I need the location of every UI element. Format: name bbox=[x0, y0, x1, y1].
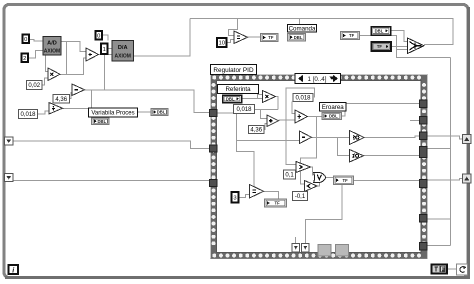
wire top long wire bbox=[190, 19, 453, 45]
bottom tunnel box 1 bbox=[292, 244, 300, 253]
Eroarea label bbox=[320, 103, 347, 112]
svg-text:1 [0..4]: 1 [0..4] bbox=[308, 76, 327, 83]
svg-text:D/A: D/A bbox=[118, 45, 128, 51]
TF control top right bbox=[372, 42, 392, 51]
wire branch to not-equal bbox=[338, 137, 350, 155]
svg-text:DBL: DBL bbox=[226, 96, 235, 101]
wire junction to add top bbox=[261, 109, 268, 118]
wire branch to select f bbox=[397, 49, 408, 51]
wire shift register 1 wire bbox=[13, 141, 210, 149]
wire 0 to D/A top bbox=[102, 35, 108, 40]
select function bbox=[408, 38, 425, 54]
loop condition terminal bbox=[457, 264, 468, 275]
Variabila Proces DBL indicator right bbox=[151, 109, 168, 116]
wire less out to or bbox=[317, 183, 320, 187]
Referinta label bbox=[218, 85, 259, 94]
wire 0,02 to multiply bbox=[42, 78, 48, 85]
svg-text:A/D: A/D bbox=[47, 41, 57, 47]
wire add out to D/A bbox=[99, 54, 113, 56]
svg-text:DBL: DBL bbox=[98, 119, 107, 124]
svg-text:-0,1: -0,1 bbox=[295, 194, 306, 200]
svg-text:Eroarea: Eroarea bbox=[322, 104, 345, 111]
wire shift register 2 wire bbox=[13, 179, 210, 181]
constant 3 bbox=[232, 192, 239, 203]
wire or out to TF bbox=[326, 177, 334, 179]
equal function top bbox=[234, 31, 248, 44]
wire subtract out to comparators bbox=[312, 136, 350, 138]
wire DBL to select t bbox=[391, 31, 408, 42]
TF indicator or output bbox=[334, 176, 354, 185]
wire 4,36 to subtract bbox=[70, 93, 73, 99]
svg-text:TF: TF bbox=[275, 201, 281, 206]
wire branch to Comanda bbox=[299, 19, 301, 25]
tunnel G right bbox=[420, 243, 428, 251]
svg-text:0,018: 0,018 bbox=[20, 112, 36, 118]
wire D/A out up bbox=[134, 19, 191, 57]
wire long right vertical bbox=[450, 58, 452, 246]
svg-text:0: 0 bbox=[24, 37, 27, 43]
wire equal out to TF bbox=[248, 36, 261, 38]
svg-text:TF: TF bbox=[377, 44, 383, 49]
constant 0,1 bbox=[284, 170, 296, 179]
wire 2 to A/D bbox=[28, 51, 43, 59]
Variabila Proces DBL indicator below bbox=[92, 118, 110, 125]
wire branch to equal top bbox=[229, 19, 238, 36]
tunnel A right bbox=[420, 100, 428, 108]
wire 0,018 to junction bbox=[255, 108, 278, 110]
svg-text:1: 1 bbox=[103, 47, 106, 53]
equal function frame bbox=[250, 185, 264, 199]
add function bbox=[86, 48, 99, 61]
iteration terminal i bbox=[9, 265, 19, 275]
svg-text:Regulator PID: Regulator PID bbox=[213, 67, 254, 74]
svg-text:10: 10 bbox=[219, 41, 225, 47]
wire A/D bottom out to multiply bbox=[46, 55, 49, 72]
constant 2 bbox=[22, 54, 29, 63]
Variabila Proces label bbox=[89, 108, 138, 117]
svg-text:2: 2 bbox=[23, 56, 26, 62]
less function bbox=[305, 181, 318, 192]
svg-text:DBL: DBL bbox=[157, 110, 166, 115]
svg-text:0,1: 0,1 bbox=[285, 173, 294, 179]
Comanda DBL indicator bbox=[288, 34, 306, 42]
sequence local gray square 2 bbox=[336, 245, 349, 257]
right shift register 2 bbox=[463, 174, 472, 183]
svg-text:4,36: 4,36 bbox=[55, 97, 67, 103]
constant 0 bbox=[23, 35, 30, 44]
wire TF indicator wire right bbox=[360, 35, 451, 57]
wire tunnel D out bbox=[427, 148, 451, 150]
wire TF wire to tunnel E bbox=[354, 180, 420, 182]
svg-text:Comanda: Comanda bbox=[289, 25, 316, 32]
constant 0 top bbox=[96, 31, 103, 40]
wire TF branch down to bottom tunnel bbox=[306, 185, 343, 244]
constant 0,018 bbox=[19, 110, 38, 119]
greater function bbox=[296, 162, 311, 173]
constant 0,02 bbox=[27, 81, 43, 90]
left shift register 1 bbox=[5, 137, 14, 145]
subtract function frame bbox=[300, 131, 312, 144]
wire junction down to process wire bbox=[104, 55, 106, 90]
tunnel F right bbox=[420, 215, 428, 223]
divide function bbox=[49, 103, 63, 115]
wire branch to subtract bottom bbox=[236, 140, 299, 142]
svg-text:4,36: 4,36 bbox=[250, 128, 262, 134]
svg-text:TF: TF bbox=[343, 178, 349, 183]
tunnel T2 left bbox=[210, 145, 218, 152]
wire 0,1 to greater bbox=[293, 169, 295, 171]
svg-text:Referinta: Referinta bbox=[225, 86, 251, 93]
wire not-equal out to tunnel D bbox=[364, 155, 420, 157]
wire 10 to equal bbox=[227, 40, 235, 43]
subtract function bbox=[72, 84, 85, 96]
svg-text:DBL: DBL bbox=[375, 28, 384, 33]
tunnel E right bbox=[420, 180, 428, 188]
wire equal out to TF indicator bbox=[264, 191, 279, 199]
sequence local gray square 1 bbox=[318, 245, 331, 257]
wire 3 to equal bbox=[239, 194, 250, 197]
greater-equal-zero function bbox=[350, 131, 365, 145]
Comanda label bbox=[288, 25, 317, 33]
wire subtract out long wire to frame tunnel bbox=[85, 90, 210, 113]
add function frame bbox=[267, 115, 279, 127]
constant 0,018 frame left bbox=[234, 105, 255, 114]
bottom tunnel box 2 bbox=[302, 244, 310, 253]
svg-text:0,02: 0,02 bbox=[28, 83, 40, 89]
svg-text:DBL: DBL bbox=[294, 35, 303, 40]
constant 10 bbox=[217, 38, 227, 47]
Referinta DBL control bbox=[223, 95, 242, 103]
tunnel T3 left bbox=[210, 180, 218, 187]
TF indicator equal output bbox=[265, 199, 287, 207]
wire A/D out to add bbox=[61, 42, 86, 52]
wire tunnel C to right shift register bbox=[427, 136, 463, 139]
TF indicator top 1 bbox=[261, 34, 279, 42]
sequence selector label 1 [0..4] bbox=[295, 74, 341, 84]
wire TF control to select s bbox=[391, 45, 408, 47]
constant 4,36 frame bbox=[249, 126, 265, 134]
svg-text:3: 3 bbox=[233, 195, 236, 201]
not-equal-zero function bbox=[350, 150, 364, 163]
wire divide out to Eroarea bbox=[308, 116, 323, 118]
wire label to DBL right bbox=[138, 111, 152, 113]
svg-text:TF: TF bbox=[268, 35, 274, 40]
wire Referinta branch to multiply top bbox=[258, 95, 263, 99]
constant 0,018 frame top bbox=[293, 94, 313, 102]
wire 4,36 to add bottom bbox=[264, 123, 267, 129]
constant -0,1 bbox=[293, 192, 308, 201]
wire tunnel F in bbox=[427, 218, 451, 220]
multiply function bbox=[48, 68, 60, 81]
right shift register 1 bbox=[463, 135, 472, 144]
wire Eroarea to tunnel A bbox=[342, 104, 420, 116]
wire Referinta to multiply bbox=[242, 98, 263, 100]
or function bbox=[314, 172, 326, 182]
sequence structure Regulator PID frame bbox=[210, 74, 427, 259]
wire 0,018 loop to greater bbox=[286, 88, 315, 165]
constant 4,36 bbox=[53, 95, 70, 104]
Regulator PID label bbox=[211, 65, 257, 75]
svg-text:AXIOM: AXIOM bbox=[115, 54, 131, 60]
wire 0 to A/D bbox=[29, 40, 43, 41]
wire tunnel G in bbox=[427, 245, 451, 247]
wire stub to bottom tunnel 1 bbox=[295, 237, 297, 244]
svg-text:Variabila Proces: Variabila Proces bbox=[91, 111, 134, 117]
tunnel C right bbox=[420, 132, 428, 140]
A/D AXIOM subVI bbox=[43, 37, 61, 56]
wire divide out to Variabila Proces bbox=[63, 107, 89, 109]
svg-text:0,018: 0,018 bbox=[236, 107, 252, 113]
wire add out to divide bbox=[279, 119, 296, 121]
wire greater-equal out to tunnel C bbox=[364, 136, 420, 138]
wire branch to DBL below label bbox=[91, 90, 94, 121]
wire TF to loop condition bbox=[447, 268, 456, 270]
svg-text:0: 0 bbox=[97, 33, 100, 39]
wire tunnel B stub bbox=[410, 119, 420, 121]
wire A/D branch down bbox=[66, 42, 68, 75]
tunnel B right bbox=[420, 117, 428, 125]
wire 1 to D/A bbox=[108, 48, 113, 50]
wire tunnel E to right shift register bbox=[427, 179, 463, 180]
D/A AXIOM subVI bbox=[112, 41, 134, 62]
DBL control top right bbox=[371, 27, 391, 36]
wire 0,018 to divide top bbox=[292, 102, 295, 114]
TF indicator top 2 bbox=[341, 32, 360, 40]
wire Eroarea branch down to less bbox=[301, 117, 317, 185]
svg-text:0,018: 0,018 bbox=[295, 96, 311, 102]
svg-text:TF: TF bbox=[349, 33, 355, 38]
wire 4,36 to divide top bbox=[49, 103, 52, 106]
wire multiply out down bbox=[276, 97, 278, 110]
TF boolean control bottom bbox=[432, 265, 448, 274]
wire 0,018 to divide bbox=[38, 111, 50, 114]
wire tunnel T1 to equal chain bbox=[217, 113, 254, 188]
svg-text:DBL: DBL bbox=[329, 114, 338, 119]
tunnel T1 left bbox=[210, 110, 218, 117]
divide function frame bbox=[295, 110, 308, 123]
tunnel D right bbox=[420, 147, 428, 158]
svg-text:AXIOM: AXIOM bbox=[44, 49, 60, 55]
wire multiply out to add bbox=[60, 58, 86, 75]
Eroarea DBL indicator bbox=[322, 113, 342, 120]
wire greater out to or bbox=[311, 167, 314, 175]
constant 1 bbox=[101, 44, 108, 55]
left shift register 2 bbox=[5, 174, 14, 182]
multiply function frame bbox=[263, 91, 276, 103]
